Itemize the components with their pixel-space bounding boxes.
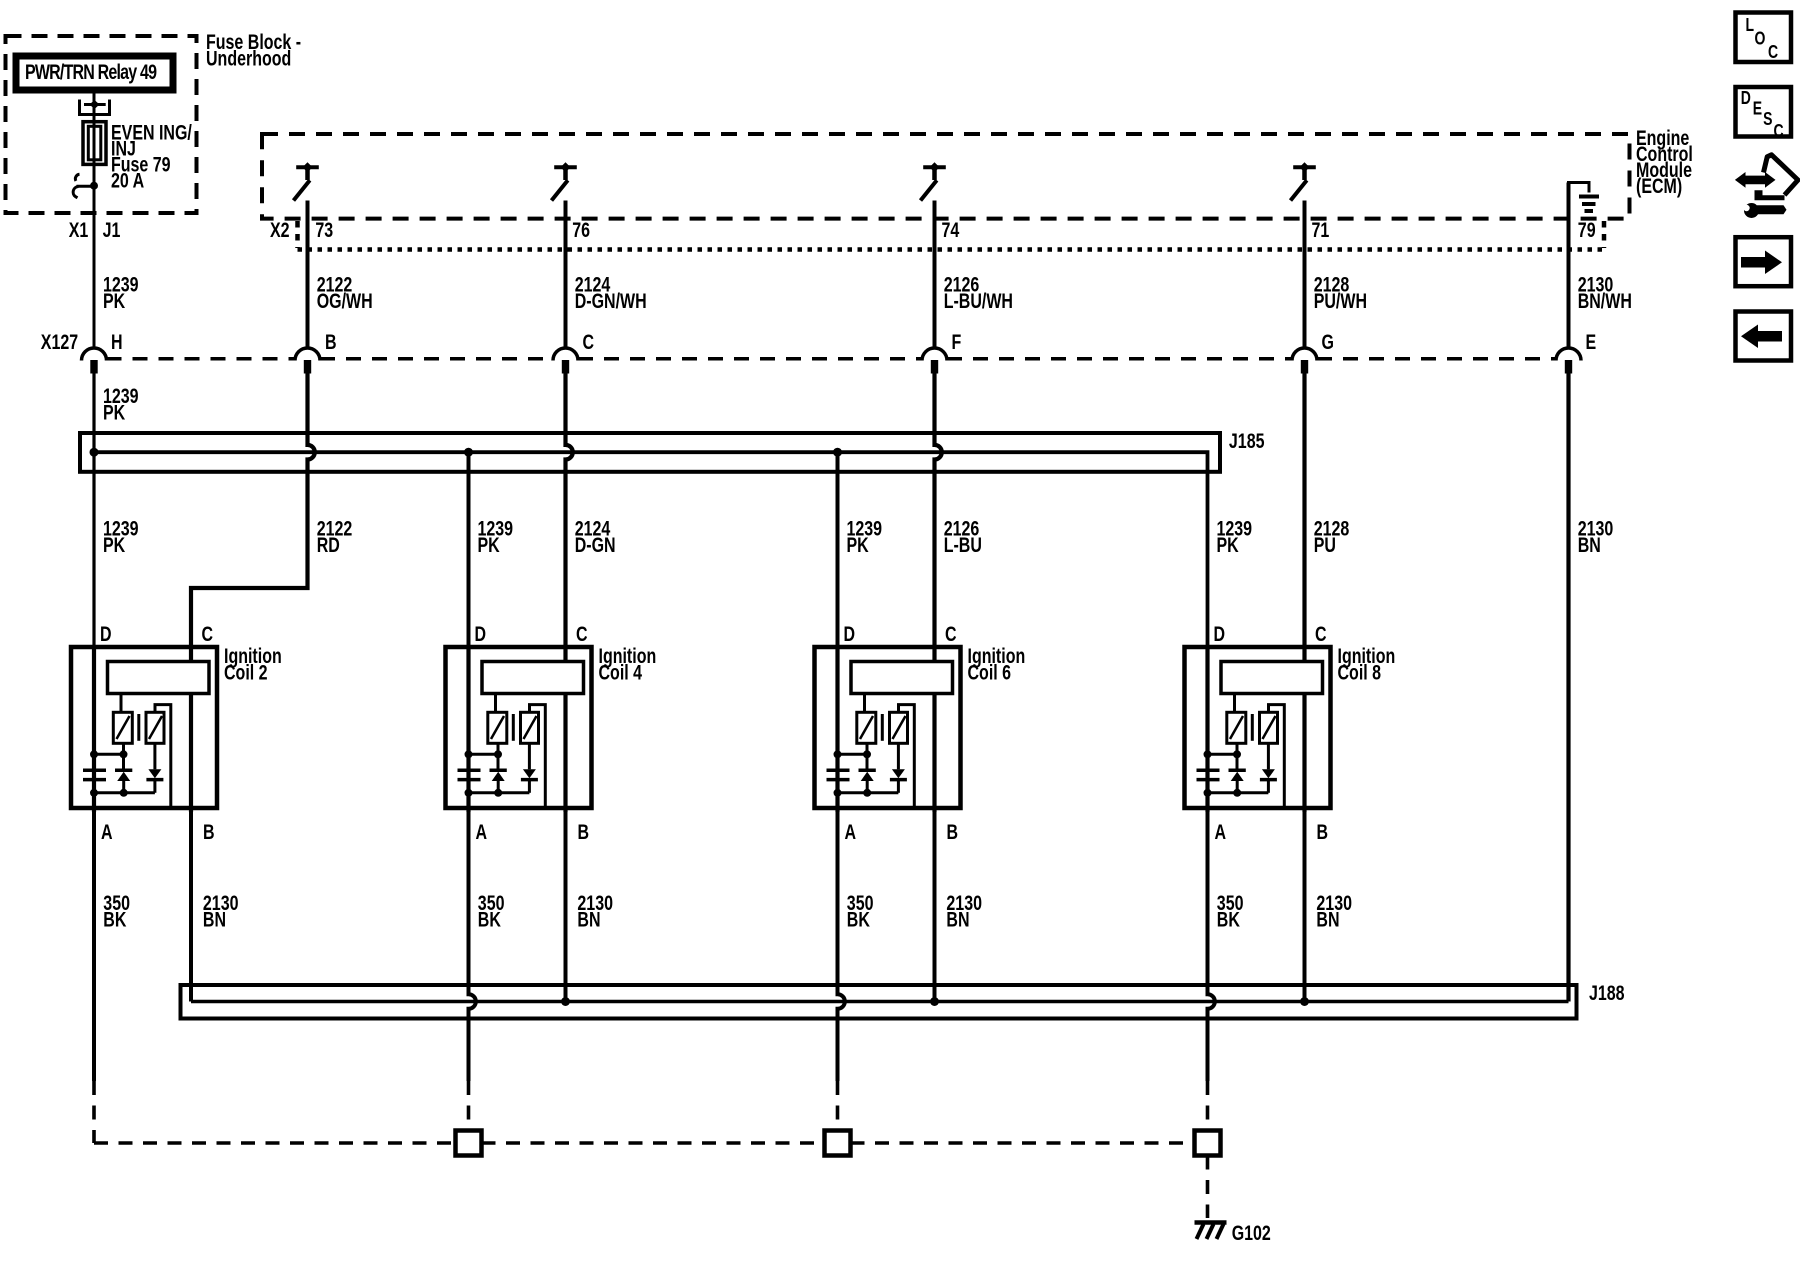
svg-text:PU/WH: PU/WH — [1314, 289, 1367, 313]
fuse block - underhood (dashed enclosure) — [6, 36, 197, 213]
svg-text:S: S — [1763, 109, 1772, 129]
icon: forward arrow button — [1736, 237, 1792, 286]
svg-text:C: C — [1315, 622, 1327, 646]
winding return to diodes — [122, 743, 125, 769]
svg-text:C: C — [202, 622, 214, 646]
wire: J185 tap down to coil4 D (1239 PK) — [467, 452, 471, 646]
wire: ECM pin 79 to X127-E, 2130 BN/WH — [1567, 183, 1571, 349]
svg-text:O: O — [1755, 29, 1766, 49]
svg-text:79: 79 — [1578, 218, 1596, 242]
svg-text:(ECM): (ECM) — [1636, 174, 1682, 198]
wire: coil4 B down to J188 (2130 BN) — [564, 812, 568, 1002]
svg-text:L: L — [1746, 15, 1755, 35]
in-line connector square @468.5 — [456, 1131, 482, 1156]
secondary output to coil tower — [155, 705, 171, 807]
svg-text:J185: J185 — [1229, 429, 1265, 453]
dashed drop coil4 A — [467, 1081, 471, 1131]
label: Engine Control Module (ECM) — [1636, 126, 1693, 198]
relay output terminal bracket — [78, 100, 111, 115]
svg-text:BN: BN — [946, 907, 969, 931]
svg-text:D: D — [1214, 622, 1226, 646]
wire: coil2 B down to J188 (2130 BN) — [189, 812, 193, 1002]
wire label 1239 PK below X127-H — [103, 384, 139, 424]
svg-text:B: B — [947, 820, 959, 844]
svg-text:PK: PK — [103, 289, 126, 313]
ground G102 symbol — [1195, 1220, 1227, 1225]
svg-text:PU: PU — [1314, 533, 1336, 557]
wire: X127-H down to splice J185 and coil2 D (1239 PK) — [92, 360, 95, 646]
svg-text:J1: J1 — [103, 218, 121, 242]
svg-text:X1: X1 — [69, 218, 89, 242]
splice pack J185 bus wire — [94, 452, 1208, 646]
connector X127 terminal at x=94 (half-circle + pin) — [82, 348, 107, 360]
wire: coil2 A down (350 BK) — [92, 808, 96, 1081]
svg-text:74: 74 — [942, 218, 960, 242]
svg-text:PK: PK — [103, 533, 126, 557]
svg-text:D: D — [100, 622, 112, 646]
wire: J185 tap down to coil6 D (1239 PK) — [836, 452, 840, 646]
pin labels X2 73 76 74 71 79 — [270, 218, 1596, 242]
splice pack J185 (outer channel) — [80, 433, 1220, 472]
svg-text:C: C — [1774, 121, 1784, 141]
dashed drop coil8 A — [1206, 1081, 1210, 1131]
svg-text:D-GN/WH: D-GN/WH — [575, 289, 647, 313]
label J185 — [1229, 429, 1265, 453]
ignition coil 8 (symbol) — [1185, 646, 1331, 812]
svg-text:BK: BK — [1217, 907, 1241, 931]
dashed drop to ground G102 — [1206, 1156, 1210, 1219]
junction dot J185 @468.5 — [464, 448, 473, 457]
svg-text:A: A — [101, 820, 113, 844]
svg-text:L-BU/WH: L-BU/WH — [944, 289, 1013, 313]
wire: coil4 A down, hops J188 (350 BK) — [469, 808, 476, 1081]
svg-text:B: B — [1317, 820, 1329, 844]
junction dot J188 @1304.5 — [1300, 997, 1309, 1006]
off-page dashed ground run: coil2 A — [92, 1081, 96, 1143]
svg-text:PK: PK — [103, 400, 126, 424]
svg-text:D: D — [475, 622, 487, 646]
wire: coil6 B down to J188 (2130 BN) — [933, 812, 937, 1002]
svg-text:73: 73 — [315, 218, 333, 242]
connector labels X1 / J1 — [69, 218, 121, 242]
wire labels below coils — [103, 891, 1352, 931]
splice pack J188 (outer channel) — [181, 985, 1577, 1019]
svg-text:B: B — [325, 330, 337, 354]
svg-text:D: D — [1741, 88, 1751, 108]
Engine Control Module (ECM) dashed enclosure — [262, 134, 1630, 219]
diode (down) — [153, 743, 156, 769]
label G102 — [1232, 1221, 1271, 1245]
junction node below fuse — [90, 182, 98, 190]
ECM low-side driver (switch) for pin at x=565.5 — [554, 165, 577, 169]
wire: X127-F down, hops J185, to coil6 C (2126 L-BU) — [935, 360, 942, 646]
svg-text:F: F — [952, 330, 962, 354]
wire: coil6 A down, hops J188 (350 BK) — [838, 808, 845, 1081]
fuse F: EVEN ING/INJ Fuse 79 20 A — [83, 122, 106, 165]
wire: relay output through fuse (1239 PK feed), x=94 — [93, 94, 96, 349]
icon: DESC button — [1736, 87, 1792, 137]
svg-text:G102: G102 — [1232, 1221, 1271, 1245]
splice pack J188 bus wire — [191, 1000, 1569, 1004]
ignition coil 6 (symbol) — [815, 646, 961, 812]
connector X127 terminal at x=307.5 (half-circle + pin) — [295, 348, 320, 360]
coil outer case — [71, 647, 217, 808]
in-line connector square @837.5 — [825, 1131, 851, 1156]
label: Fuse Block - Underhood — [206, 30, 301, 70]
junction dot J185 @94 — [90, 448, 99, 457]
svg-text:C: C — [583, 330, 595, 354]
wire: coil8 A down, hops J188 (350 BK) — [1208, 808, 1215, 1081]
X127 dashed connector line — [107, 357, 1557, 361]
icon: back arrow button — [1736, 312, 1792, 361]
connector X127 terminal at x=565.5 (half-circle + pin) — [553, 348, 578, 361]
svg-text:20 A: 20 A — [111, 169, 144, 193]
svg-text:D-GN: D-GN — [575, 533, 616, 557]
wire: X127-G down to coil8 C (2128 PU) — [1302, 360, 1306, 646]
wire: ECM pin 74 to X127-F, 2126 L-BU/WH — [933, 201, 937, 349]
svg-text:B: B — [203, 820, 215, 844]
svg-text:Coil 2: Coil 2 — [224, 660, 268, 684]
in-line connector X127 row — [41, 330, 1596, 354]
dashed drop coil6 A — [836, 1081, 840, 1131]
svg-text:X2: X2 — [270, 218, 290, 242]
in-line connector square @1207.5 — [1195, 1131, 1221, 1156]
connector X127 terminal at x=1568.5 (half-circle + pin) — [1556, 348, 1581, 361]
svg-text:PK: PK — [478, 533, 501, 557]
svg-text:E: E — [1586, 330, 1597, 354]
icon: tools / navigation glyph — [1735, 155, 1798, 218]
diode (up) — [115, 769, 132, 773]
svg-text:X127: X127 — [41, 330, 78, 354]
svg-text:H: H — [111, 330, 123, 354]
svg-text:L-BU: L-BU — [944, 533, 982, 557]
svg-text:76: 76 — [572, 218, 590, 242]
bottom link — [94, 791, 155, 794]
ECM low-side driver (switch) for pin at x=1304.5 — [1293, 165, 1316, 169]
junction dot J185 @837.5 — [833, 448, 842, 457]
ignition coil 4 (symbol) — [446, 646, 592, 812]
svg-text:BN: BN — [1578, 533, 1601, 557]
dashed ground run horizontal — [94, 1141, 456, 1145]
core — [137, 714, 140, 741]
svg-text:C: C — [945, 622, 957, 646]
svg-text:J188: J188 — [1589, 981, 1625, 1005]
svg-text:OG/WH: OG/WH — [317, 289, 373, 313]
coil pin D/A internal conductor with capacitor — [92, 646, 96, 812]
connector X127 terminal at x=934.5 (half-circle + pin) — [922, 348, 947, 360]
wire: ECM pin 71 to X127-G, 2128 PU/WH — [1303, 201, 1307, 349]
ECM internal ground at pin 79 — [1569, 183, 1590, 193]
svg-text:PK: PK — [847, 533, 870, 557]
svg-text:BN: BN — [577, 907, 600, 931]
svg-text:BK: BK — [103, 907, 127, 931]
wire labels between J185 and coils — [103, 516, 1613, 556]
terminal diamond — [90, 100, 100, 109]
wire labels (circuit number / color) above X127 — [103, 272, 1632, 312]
svg-text:BN: BN — [203, 907, 226, 931]
svg-text:PWR/TRN Relay 49: PWR/TRN Relay 49 — [25, 60, 157, 84]
svg-text:B: B — [578, 820, 590, 844]
svg-text:C: C — [576, 622, 588, 646]
svg-text:A: A — [1215, 820, 1227, 844]
relay switch contact symbol — [77, 185, 95, 188]
ignition coil 2 (symbol definition) — [71, 646, 217, 812]
stub bar to primary winding — [120, 694, 123, 713]
secondary winding — [146, 712, 164, 743]
junction dot J188 @934.5 — [930, 997, 939, 1006]
wire: ECM pin 76 to X127-C, 2124 D-GN/WH — [564, 201, 568, 349]
junction dot J188 @565.5 — [561, 997, 570, 1006]
svg-text:Underhood: Underhood — [206, 46, 291, 70]
svg-text:A: A — [476, 820, 488, 844]
junction dot — [90, 750, 98, 758]
svg-text:BK: BK — [847, 907, 871, 931]
svg-text:A: A — [845, 820, 857, 844]
svg-text:G: G — [1322, 330, 1334, 354]
wire: coil8 B down to J188 (2130 BN) — [1303, 812, 1307, 1002]
coil pin letters and names — [100, 622, 1395, 844]
icon: LOC button — [1736, 13, 1792, 63]
svg-text:71: 71 — [1312, 218, 1330, 242]
svg-text:PK: PK — [1217, 533, 1240, 557]
coil module bar — [108, 662, 210, 694]
svg-text:BK: BK — [478, 907, 502, 931]
ECM low-side driver (switch) for pin at x=934.5 — [923, 165, 946, 169]
svg-text:D: D — [844, 622, 856, 646]
svg-text:Coil 8: Coil 8 — [1338, 660, 1382, 684]
svg-text:BN: BN — [1316, 907, 1339, 931]
wire: ECM pin 73 to X127-B, 2122 OG/WH — [306, 201, 310, 349]
pin C/B internal conductor — [189, 646, 193, 812]
svg-text:E: E — [1753, 99, 1762, 119]
svg-text:Coil 4: Coil 4 — [599, 660, 643, 684]
ECM low-side driver (switch) for pin at x=307.5 — [296, 165, 319, 169]
label J188 — [1589, 981, 1625, 1005]
svg-text:Coil 6: Coil 6 — [968, 660, 1012, 684]
wire: X127-E down to splice J188 right end (2130 BN) — [1566, 360, 1570, 1002]
capacitor — [83, 770, 106, 779]
ECM connector pin row (dotted) — [298, 247, 1605, 252]
connector X127 terminal at x=1304.5 (half-circle + pin) — [1292, 348, 1317, 361]
svg-text:C: C — [1768, 42, 1778, 62]
wire: X127-C down, hops J185, to coil4 C (2124 D-GN) — [566, 360, 573, 646]
svg-text:BN/WH: BN/WH — [1578, 289, 1632, 313]
svg-text:RD: RD — [317, 533, 340, 557]
relay K: PWR/TRN Relay 49 — [16, 56, 173, 90]
wire: X127-B down, hops J185, jogs left to coil2 C (2122 RD) — [191, 360, 315, 646]
link to primary winding — [94, 753, 124, 756]
primary winding — [113, 712, 132, 743]
